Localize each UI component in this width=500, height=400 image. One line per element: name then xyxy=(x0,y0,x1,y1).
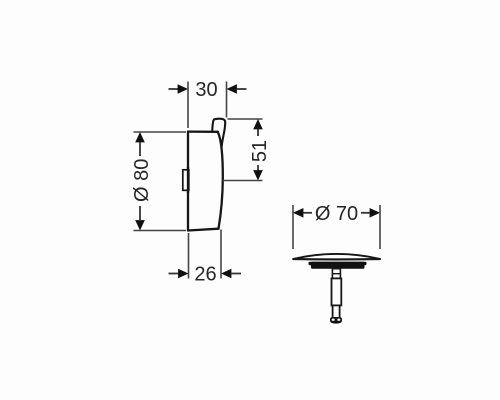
dimension 51 up arrow xyxy=(253,119,263,129)
dimension 30 left arrow xyxy=(169,88,179,90)
dimension 30 right arrow xyxy=(227,84,237,94)
plug foot xyxy=(330,317,342,323)
dimension 51 down arrow xyxy=(257,165,259,171)
dimension 51 extension lines xyxy=(228,118,263,120)
plug stem lower thin section xyxy=(333,305,340,318)
dimension 30 extension line right xyxy=(226,82,228,118)
dimension 26 right arrow xyxy=(221,269,231,279)
dimension O70 left arrow xyxy=(293,208,303,218)
dimension 26 left arrow xyxy=(169,273,179,275)
dimension O80 extension lines xyxy=(134,131,187,133)
dimension 26 extension lines xyxy=(188,233,190,279)
lever on top of body xyxy=(212,119,225,149)
clip tab on body left edge xyxy=(183,170,189,191)
dimension O80 up arrow xyxy=(135,132,145,142)
dimension O80 down arrow xyxy=(139,206,141,220)
dimension O70 right arrow xyxy=(361,212,370,214)
body side view outline xyxy=(188,132,223,231)
svg-text:51: 51 xyxy=(249,140,271,162)
plug stem main section xyxy=(332,278,342,305)
plug seal band lower xyxy=(311,262,365,269)
svg-text:26: 26 xyxy=(194,264,216,286)
plug disc xyxy=(293,255,381,260)
svg-text:30: 30 xyxy=(195,79,217,101)
plug seal band upper lip xyxy=(309,262,367,265)
plug stem neck xyxy=(332,269,340,279)
dimension O70 extension lines xyxy=(292,205,294,249)
dimension 30 extension line left xyxy=(187,82,189,129)
svg-text:Ø 80: Ø 80 xyxy=(131,159,153,202)
svg-text:Ø 70: Ø 70 xyxy=(315,203,358,225)
